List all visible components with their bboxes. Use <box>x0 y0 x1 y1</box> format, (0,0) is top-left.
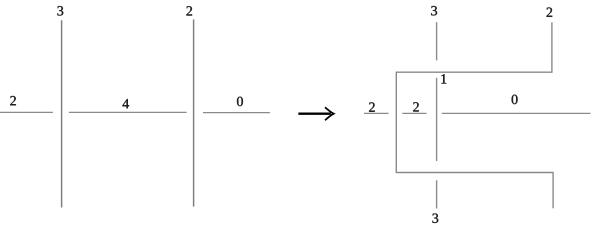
label 3 (right figure, top strand) <box>431 6 437 15</box>
left figure: horizontal arc 2 (undercrossing segment) <box>0 111 53 113</box>
right figure: middle arc 0, long horizontal (undercrossing segment) <box>442 112 591 114</box>
right figure: middle arc 2 outside bracket (undercrossing segment) <box>364 112 389 114</box>
label 2 (right figure, top-right strand) <box>547 8 553 17</box>
arrow shaft <box>298 113 330 115</box>
label 0 (right figure, long horizontal arc) <box>512 95 518 104</box>
label 2 (right figure, arc inside bracket) <box>413 102 419 111</box>
label 4 (left figure, middle horizontal arc) <box>122 99 129 108</box>
label 1 (right figure, crossing arc) <box>441 74 446 83</box>
arrow head <box>325 107 334 120</box>
left figure: horizontal arc 0 (undercrossing segment) <box>203 112 270 114</box>
right figure: strand 3 vertical, upper segment (under top bracket) <box>436 22 438 60</box>
right figure: bracket strand 2 (S-shaped over-strand path) <box>396 22 553 208</box>
left figure: vertical strand 2 (overcrossing, unbroken) <box>193 19 195 206</box>
label 0 (left figure, right horizontal arc) <box>237 97 243 106</box>
label 2 (left figure, top of second vertical strand) <box>186 6 192 15</box>
label 2 (right figure, arc outside bracket) <box>369 102 375 111</box>
label 3 (left figure, top of first vertical strand) <box>57 6 63 15</box>
right figure: strand 3 vertical, lower segment (under bottom bracket) <box>436 180 438 208</box>
left figure: vertical strand 3 (overcrossing, unbroken) <box>61 20 63 207</box>
label 2 (left figure, left horizontal arc) <box>10 96 16 105</box>
right figure: middle arc 2 inside bracket (undercrossing segment) <box>402 112 426 114</box>
left figure: horizontal arc 4 (undercrossing segment) <box>69 111 187 113</box>
right figure: strand 3 vertical, middle segment (over middle arc) <box>436 78 438 161</box>
label 3 (right figure, bottom strand) <box>432 214 438 223</box>
